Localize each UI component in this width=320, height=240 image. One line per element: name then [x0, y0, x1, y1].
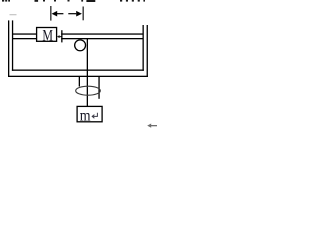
- cropped gray paragraph-return arrow at bottom-right edge: [147, 124, 157, 128]
- track lower line, left segment (wall to block M): [12, 38, 37, 39]
- left wall outer line: [8, 20, 9, 77]
- spring loop ellipse: [76, 86, 101, 95]
- dimension annotation left arrow (points left): [52, 11, 64, 17]
- dimension annotation right arrow (points right): [68, 11, 82, 17]
- pulley circle: [75, 40, 86, 51]
- block M box: [37, 28, 57, 42]
- paragraph return mark inside mass m box: [92, 113, 97, 119]
- container bottom outer line: [8, 76, 148, 77]
- track upper line, left segment (wall to block M): [12, 33, 37, 34]
- hanger left vertical line below container bottom: [79, 76, 80, 86]
- hanger right vertical line below container bottom: [98, 76, 99, 99]
- right wall outer line: [147, 25, 148, 77]
- small arrow at right of block M (points left into block): [57, 35, 62, 38]
- cropped text fragment dots along top edge: [2, 0, 145, 2]
- mass m box: [77, 106, 102, 121]
- string from pulley down to mass m: [87, 39, 88, 107]
- container bottom inner line: [12, 70, 144, 71]
- left wall inner line: [12, 20, 13, 70]
- svg-text:M: M: [42, 28, 53, 45]
- faint smudge near left wall top: [10, 14, 17, 15]
- svg-text:m: m: [80, 107, 91, 124]
- dimension annotation right bar: [83, 7, 84, 21]
- dimension annotation left bar: [50, 6, 51, 21]
- right wall inner line: [143, 25, 144, 71]
- short vertical bar right of block M: [61, 30, 62, 42]
- track upper line, right segment (bar to right wall): [61, 33, 143, 34]
- track lower line, right segment (bar to right wall): [61, 38, 143, 39]
